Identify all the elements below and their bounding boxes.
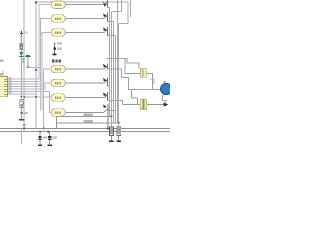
junction mark above rail on x24 bbox=[23, 124, 26, 126]
wire R6 out bbox=[65, 97, 104, 99]
wire R7 out bbox=[65, 112, 104, 114]
wire tail bus b bbox=[41, 84, 43, 110]
wire bbox=[20, 50, 22, 52]
bus vertical 6 feeding R7 bbox=[8, 92, 52, 113]
junction dot wire1 bbox=[110, 116, 112, 118]
transistor Q4 bbox=[103, 64, 122, 70]
bus vertical 4 feeding R4 bbox=[8, 69, 52, 87]
label RN1 bbox=[52, 60, 55, 63]
junction x36 bbox=[35, 69, 37, 71]
capacitor C3 below rail bbox=[38, 132, 47, 146]
junction rail x43.6 bbox=[43, 128, 45, 130]
wire Q6 to C2 left bbox=[122, 101, 124, 105]
wire R1 out bbox=[65, 4, 104, 6]
wire R6 feed bbox=[24, 96, 51, 98]
capacitor C2 (yellow plates) bbox=[123, 90, 164, 109]
resistor R7 bbox=[51, 109, 65, 116]
power flag VCC left bbox=[20, 31, 23, 43]
resistor R8 vertical small (left chain) bbox=[20, 43, 23, 50]
power symbols center (VCC arrow, node, GND) bbox=[53, 42, 62, 56]
ground left chain bbox=[19, 119, 24, 121]
net label wire 1 bbox=[57, 116, 111, 118]
IC U1 (clipped at left edge) bbox=[0, 71, 11, 97]
transistor Q3 bbox=[103, 27, 116, 36]
resistor R4 bbox=[51, 65, 65, 72]
meter M1 circle-in-box bbox=[20, 96, 24, 112]
wire rail drop x43.6 bbox=[43, 87, 45, 129]
transistor Q6 bbox=[103, 92, 123, 101]
wire bbox=[21, 113, 23, 119]
capacitor C1 (yellow plates) bbox=[125, 68, 153, 77]
junction R6 feed x36 bbox=[35, 96, 37, 98]
bus vertical 2 feeding R2 bbox=[8, 19, 52, 82]
wire C1 top feed bbox=[107, 59, 139, 69]
IC top pin stub bbox=[2, 71, 4, 77]
junction top bbox=[35, 1, 37, 3]
wire bend y11.5 bbox=[111, 11, 121, 13]
junction R6 feed bbox=[23, 96, 25, 98]
wire C1 right down to LED bbox=[152, 73, 154, 89]
power rail double line bbox=[0, 129, 170, 132]
LED LD1 blue bbox=[161, 81, 172, 94]
IC pin numbers bbox=[9, 77, 12, 94]
clipped text fragments at left edge bbox=[0, 60, 3, 62]
wire Q4 staircase to LED bbox=[122, 69, 161, 90]
wire tail bus a bbox=[39, 82, 41, 110]
transistor Q2 bbox=[103, 13, 114, 22]
wire vertical left long bbox=[23, 0, 25, 129]
wire stub below rail left bbox=[20, 129, 22, 145]
resistor R2 bbox=[51, 15, 65, 22]
arrow off-page right bbox=[164, 102, 169, 106]
resistor R10 vertical bottom right bbox=[117, 123, 121, 141]
wire R4 out bbox=[65, 68, 104, 70]
bus vertical 5 feeding R5 bbox=[8, 83, 52, 89]
junction dot under meter bbox=[20, 112, 22, 114]
wire top horizontal net bbox=[36, 1, 128, 3]
LED D1 green bbox=[19, 52, 23, 96]
transistor Q1 bbox=[103, 0, 109, 8]
wire from dome to R4 row bbox=[28, 66, 41, 68]
resistor R6 bbox=[51, 94, 65, 101]
wire LED cathode down bbox=[163, 95, 167, 103]
bus vertical 1 feeding R1 bbox=[8, 5, 52, 80]
wire R2 out bbox=[65, 18, 104, 20]
wire Q5 stub joins bbox=[150, 79, 154, 84]
transistor Q5 bbox=[103, 78, 109, 87]
net label wire 2 bbox=[56, 116, 118, 128]
resistor R5 bbox=[51, 79, 65, 86]
resistor R3 bbox=[51, 29, 65, 36]
right vertical net group bbox=[109, 0, 130, 123]
junction dot wire2 bbox=[118, 122, 120, 124]
capacitor dome (buzzer) bbox=[25, 55, 30, 67]
capacitor C4 below rail bbox=[48, 132, 57, 146]
wire R5 out bbox=[65, 82, 104, 84]
resistor R1 bbox=[51, 1, 65, 8]
wire R3 out bbox=[65, 32, 104, 34]
resistor R9 vertical bottom right bbox=[109, 117, 113, 142]
label D1 bbox=[23, 58, 25, 60]
rail junction dots bbox=[23, 127, 25, 129]
wire pin7 to x36 bbox=[8, 93, 36, 95]
bus vertical 3 feeding R3 bbox=[8, 33, 52, 85]
wire bend y23.4 bbox=[119, 22, 129, 24]
wire C1 left feed bbox=[124, 59, 126, 74]
wire vertical x36 bbox=[35, 2, 37, 129]
transistor Q7 bbox=[103, 104, 116, 129]
